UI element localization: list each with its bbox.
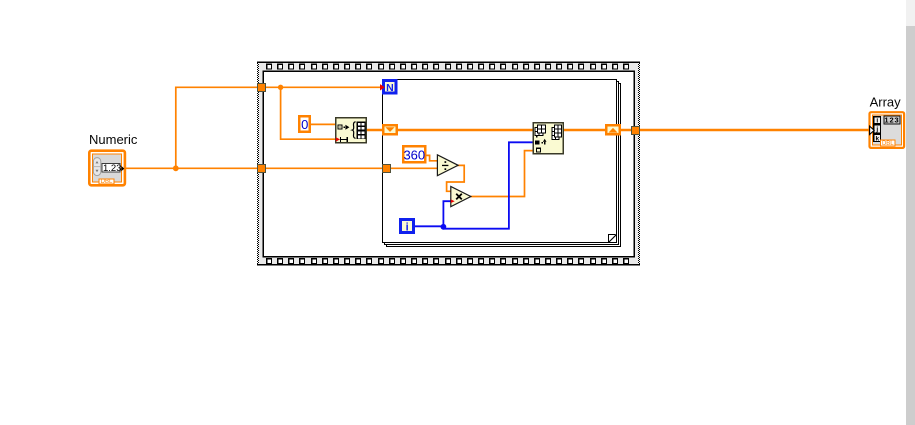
wire: lower tunnel to loop border tunnel to divide input: [265, 167, 437, 169]
coercion arrow at N: [380, 84, 385, 90]
flat sequence structure frame: [257, 62, 640, 266]
wire junction dot: [173, 165, 179, 171]
Initialize Array node: [335, 117, 367, 144]
for loop count terminal N: [382, 79, 398, 95]
wire: Numeric output to lower sequence tunnel: [124, 167, 258, 169]
svg-text:i: i: [876, 117, 878, 124]
tunnel: sequence left lower: [257, 164, 266, 173]
numeric constant 360: [402, 145, 427, 164]
numeric control Numeric: [89, 151, 125, 186]
wire: i branch up to multiply input: [443, 201, 451, 226]
svg-text:k: k: [875, 135, 879, 142]
wire: i to Replace Array Subset index input: [443, 142, 532, 228]
wire: branch down to Initialize Array size input: [281, 87, 336, 139]
svg-text:i: i: [406, 221, 409, 233]
right shift register: [605, 124, 621, 136]
scrollbar thumb: [906, 26, 915, 425]
svg-text:DBL: DBL: [882, 141, 894, 147]
Replace Array Subset node: [533, 122, 565, 155]
left shift register: [382, 124, 398, 136]
wire: multiply output to Replace Array Subset element input: [470, 151, 533, 197]
wire: Initialize Array output to left shift register (array): [367, 129, 384, 132]
svg-text:123: 123: [884, 115, 899, 124]
array indicator Array: [870, 112, 905, 148]
for loop frame: [383, 80, 621, 247]
sequence frame sprocket holes top row: [266, 64, 629, 70]
tunnel: for loop left border: [382, 164, 391, 173]
wire: upper tunnel to N count terminal: [265, 86, 380, 88]
for loop subdiagram fold corner: [609, 235, 617, 243]
numeric constant 0: [298, 115, 311, 133]
svg-text:Array: Array: [870, 94, 902, 109]
scrollbar track: [906, 0, 915, 425]
divide function: [437, 155, 458, 176]
svg-text:0: 0: [301, 117, 308, 132]
svg-text:N: N: [386, 82, 394, 94]
svg-text:DBL: DBL: [101, 179, 113, 185]
wire: constant 0 to Initialize Array element input: [311, 123, 336, 125]
wire: array through loop to Array indicator: [398, 129, 870, 132]
wire: iteration terminal i to junction: [415, 225, 443, 227]
svg-text:1.23: 1.23: [103, 163, 122, 174]
multiply function: [451, 187, 471, 207]
wire: branch up to upper sequence tunnel: [176, 87, 258, 168]
tunnel: sequence left upper: [257, 83, 266, 92]
coercion arrow at multiply: [451, 199, 455, 203]
for loop iteration terminal i: [399, 218, 415, 234]
svg-text:360: 360: [403, 147, 425, 162]
tunnel: sequence right: [631, 126, 640, 135]
sequence frame sprocket holes bottom row: [266, 258, 629, 264]
wire junction dot: [441, 224, 447, 230]
wire junction dot: [278, 85, 283, 90]
svg-text:j: j: [875, 126, 878, 133]
wire: divide output to multiply input: [447, 165, 465, 191]
wire: constant 360 to divide input: [426, 155, 437, 160]
svg-text:Numeric: Numeric: [89, 132, 138, 147]
